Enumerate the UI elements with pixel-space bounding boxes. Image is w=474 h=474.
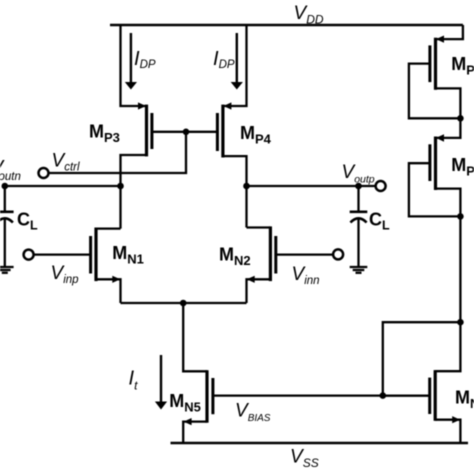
current arrow It xyxy=(160,355,162,403)
transistor MP5 xyxy=(409,25,474,118)
wire VSS rail xyxy=(171,442,469,445)
transistor MN1 xyxy=(34,228,144,304)
node dot CL right tap xyxy=(355,183,362,190)
transistor MP6 xyxy=(409,118,474,216)
capacitor CL left xyxy=(0,186,38,266)
wire Voutn net xyxy=(5,185,121,187)
node dot MP3 drain xyxy=(117,183,124,190)
current arrow IDP right xyxy=(236,33,238,84)
wire gates to Vctrl xyxy=(49,132,186,173)
wire MP6 drain to MN6 drain xyxy=(459,216,461,322)
wire tail node xyxy=(121,302,247,304)
transistor MN5 xyxy=(169,303,213,443)
terminal Vinp xyxy=(24,250,34,260)
terminal Vctrl xyxy=(39,168,49,178)
wire VDD to MP4 source xyxy=(223,25,247,106)
transistor MN2 xyxy=(219,226,333,303)
transistor MN6 xyxy=(383,322,474,443)
terminal Voutp xyxy=(376,181,386,191)
transistor MP4 xyxy=(186,102,272,186)
node dot VBIAS xyxy=(380,392,387,399)
node dot MP6 drain xyxy=(457,213,464,220)
wire VDD to MP3 source xyxy=(121,25,147,106)
wire VDD rail xyxy=(110,24,463,27)
terminal Vinn xyxy=(333,249,343,259)
svg-text:outn: outn xyxy=(0,171,21,183)
wire MP4 drain to MN2 drain xyxy=(245,186,247,228)
wire VBIAS line xyxy=(213,394,430,396)
ground left xyxy=(0,267,14,273)
node dot MP5 drain xyxy=(457,115,464,122)
wire MN6 diode loop xyxy=(383,322,461,395)
node gates junction xyxy=(183,129,190,136)
node dot MP4 drain xyxy=(243,183,250,190)
ground right xyxy=(350,267,368,273)
node Voutn dot xyxy=(2,183,9,190)
capacitor CL right xyxy=(350,186,390,266)
transistor MP3 xyxy=(89,102,186,228)
node dot MN6 drain xyxy=(457,319,464,326)
wire Voutp net xyxy=(247,185,376,187)
node tail dot xyxy=(180,300,187,307)
current arrow IDP left xyxy=(130,33,132,84)
